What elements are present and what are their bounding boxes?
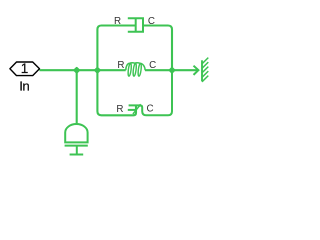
spring (middle branch) <box>126 63 145 71</box>
svg-text:In: In <box>19 79 29 94</box>
wire: left bus with top branch lead <box>97 26 135 71</box>
svg-text:1: 1 <box>21 61 29 76</box>
node junction J1 <box>73 66 81 74</box>
svg-text:C: C <box>148 16 155 27</box>
friction element arrowhead <box>138 104 141 107</box>
wire: main horizontal from inport to open terminator <box>39 69 125 71</box>
terminator wall <box>201 60 203 81</box>
spring loop 3 <box>138 63 142 76</box>
node junction J3 <box>168 66 176 74</box>
spring loop 2 <box>133 63 137 76</box>
open terminator arrowhead <box>194 66 199 75</box>
svg-text:R: R <box>117 60 124 71</box>
reference dome outline <box>65 124 87 142</box>
svg-text:R: R <box>116 104 123 115</box>
reference dome base plate <box>65 145 88 147</box>
friction element rod <box>128 109 136 111</box>
wire: stem down to reference dome <box>76 70 78 124</box>
reference dome ground bar <box>70 154 84 156</box>
node junction J2 <box>94 66 102 74</box>
reference dome ground stem <box>76 146 78 155</box>
damper U1 piston <box>135 18 137 32</box>
wire: bottom branch through-wire <box>97 70 136 115</box>
svg-text:C: C <box>149 60 156 71</box>
wire: top branch right lead to right bus <box>143 26 172 71</box>
svg-text:C: C <box>147 103 154 114</box>
terminator wall hatches <box>202 58 208 82</box>
svg-text:R: R <box>114 16 121 27</box>
inport block In1 hexagon <box>10 62 40 76</box>
spring loop 1 <box>128 63 132 76</box>
friction element force arrow shaft <box>133 106 140 114</box>
damper U1 cylinder (top branch) <box>128 18 143 32</box>
friction element (bottom branch) top plate, drop and right lead <box>129 70 172 115</box>
